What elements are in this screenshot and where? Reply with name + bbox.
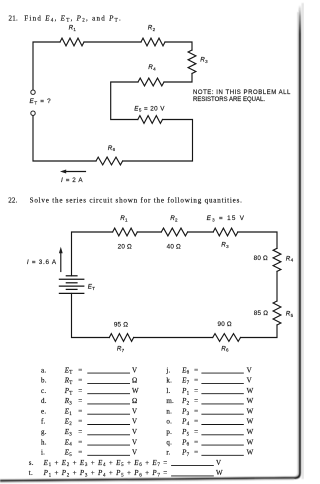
svg-text:=: =	[78, 438, 82, 446]
svg-text:E5: E5	[64, 449, 73, 458]
resistor R3	[188, 50, 196, 74]
svg-text:Find E4, ET, P2, and PT.: Find E4, ET, P2, and PT.	[24, 14, 121, 23]
svg-text:d.: d.	[41, 397, 47, 405]
svg-text:W: W	[247, 428, 254, 436]
wire: R7 to bottom-left corner up to battery	[72, 294, 110, 338]
svg-text:E4: E4	[64, 438, 73, 447]
svg-text:W: W	[132, 387, 139, 395]
svg-text:P4: P4	[181, 418, 190, 427]
svg-text:W: W	[247, 438, 254, 446]
svg-text:s.: s.	[29, 459, 34, 467]
resistor R1	[60, 38, 84, 46]
svg-text:=: =	[78, 366, 82, 374]
svg-text:R3: R3	[64, 397, 73, 406]
resistor R4	[273, 248, 281, 271]
wire: R6 to R7	[134, 337, 213, 339]
svg-text:E1: E1	[64, 407, 73, 416]
wire: R5 to bottom-right corner to R6	[241, 325, 278, 338]
svg-text:85 Ω: 85 Ω	[254, 310, 268, 317]
svg-text:q.: q.	[166, 438, 172, 446]
svg-text:40 Ω: 40 Ω	[167, 244, 181, 251]
resistor R2	[161, 228, 187, 236]
svg-text:80 Ω: 80 Ω	[254, 255, 268, 262]
svg-text:I = 2 A: I = 2 A	[61, 177, 83, 184]
svg-text:PT: PT	[64, 387, 73, 396]
svg-text:R2: R2	[148, 25, 156, 32]
svg-text:R2: R2	[170, 215, 178, 222]
svg-text:RT: RT	[64, 377, 73, 386]
svg-text:R6: R6	[221, 345, 229, 352]
svg-text:=: =	[194, 418, 198, 426]
svg-text:l.: l.	[166, 387, 170, 395]
svg-text:R7: R7	[117, 345, 125, 352]
svg-text:W: W	[247, 407, 254, 415]
svg-text:E3: E3	[64, 428, 73, 437]
svg-text:W: W	[247, 418, 254, 426]
svg-text:=: =	[194, 449, 198, 457]
svg-text:n.: n.	[166, 407, 172, 415]
terminal node (upper)	[31, 90, 35, 94]
wire: R4 to R5	[276, 271, 278, 301]
svg-text:E7: E7	[181, 377, 190, 386]
svg-text:R5: R5	[286, 311, 294, 318]
svg-text:V: V	[247, 377, 252, 385]
svg-text:R1: R1	[120, 215, 128, 222]
svg-text:b.: b.	[41, 377, 47, 385]
resistor R1	[113, 228, 138, 236]
wire: R4 left corner down to R5 row	[111, 82, 138, 120]
wire: R3 to top-right corner down to R4	[238, 232, 277, 248]
svg-text:W: W	[216, 469, 223, 477]
svg-text:P1: P1	[181, 387, 190, 396]
svg-text:g.: g.	[41, 428, 47, 436]
svg-text:E3 = 15 V: E3 = 15 V	[207, 215, 245, 222]
resistor R2	[141, 38, 165, 46]
svg-text:E5 = 20 V: E5 = 20 V	[134, 105, 165, 112]
svg-text:=: =	[194, 438, 198, 446]
battery ET	[59, 276, 85, 294]
svg-text:P7: P7	[181, 449, 190, 458]
svg-text:E6: E6	[181, 366, 190, 375]
wire: R1 to R2	[84, 41, 141, 43]
svg-text:P1 + P2 + P3 + P4 + P5 + P6 +: P1 + P2 + P3 + P4 + P5 + P6 + P7 =	[43, 469, 168, 478]
svg-text:m.: m.	[166, 397, 174, 405]
svg-text:I = 3.6 A: I = 3.6 A	[27, 259, 57, 266]
svg-text:W: W	[247, 397, 254, 405]
svg-text:=: =	[78, 387, 82, 395]
svg-text:ET = ?: ET = ?	[30, 98, 52, 105]
svg-text:=: =	[194, 397, 198, 405]
resistor R4	[138, 78, 164, 86]
wire: R6 to lower terminal	[33, 115, 96, 161]
svg-text:f.: f.	[41, 418, 46, 426]
svg-text:t.: t.	[29, 469, 33, 477]
svg-text:95 Ω: 95 Ω	[114, 321, 128, 328]
svg-text:=: =	[78, 407, 82, 415]
svg-text:c.: c.	[41, 387, 46, 395]
svg-text:=: =	[78, 449, 82, 457]
svg-text:V: V	[132, 438, 137, 446]
svg-text:h.: h.	[41, 438, 47, 446]
svg-text:i.: i.	[41, 449, 45, 457]
svg-text:P2: P2	[181, 397, 190, 406]
wire: R2 to R3	[188, 231, 214, 233]
svg-text:P5: P5	[181, 428, 190, 437]
svg-text:j.: j.	[165, 366, 170, 374]
svg-text:=: =	[194, 377, 198, 385]
svg-text:W: W	[247, 387, 254, 395]
svg-text:a.: a.	[41, 366, 46, 374]
svg-text:V: V	[216, 459, 221, 467]
svg-text:=: =	[78, 418, 82, 426]
current arrow I (pointing up)	[60, 253, 62, 272]
svg-text:Solve the series circuit shown: Solve the series circuit shown for the f…	[30, 197, 243, 205]
svg-text:=: =	[194, 428, 198, 436]
wire: R2 to top-right corner down to R3	[165, 42, 192, 50]
svg-text:V: V	[132, 366, 137, 374]
current arrow I (pointing left)	[65, 171, 86, 173]
wire: R3 bottom to R4	[164, 74, 192, 83]
svg-text:=: =	[78, 428, 82, 436]
svg-text:Ω: Ω	[132, 377, 137, 385]
svg-text:=: =	[194, 366, 198, 374]
svg-text:R3: R3	[221, 242, 229, 249]
svg-text:21.: 21.	[9, 14, 18, 22]
svg-text:p.: p.	[166, 428, 172, 436]
wire: top-left corner to R1	[72, 232, 113, 276]
resistor R5	[273, 301, 281, 325]
svg-text:R4: R4	[148, 64, 156, 71]
resistor R6	[213, 334, 241, 342]
svg-text:ET: ET	[88, 283, 95, 290]
svg-text:E1 + E2 + E3 + E4 + E5 + E6 +: E1 + E2 + E3 + E4 + E5 + E6 + E7 =	[43, 459, 168, 468]
svg-text:k.: k.	[166, 377, 172, 385]
svg-text:V: V	[132, 428, 137, 436]
terminal node (lower)	[31, 111, 35, 115]
svg-text:NOTE: IN THIS PROBLEM ALL: NOTE: IN THIS PROBLEM ALL	[193, 90, 291, 96]
resistor R3	[213, 228, 238, 236]
svg-text:W: W	[247, 449, 254, 457]
resistor R6	[96, 157, 123, 165]
wire: R1 to R2	[137, 231, 161, 233]
svg-text:V: V	[132, 449, 137, 457]
svg-text:22.: 22.	[8, 197, 17, 205]
svg-text:Ω: Ω	[132, 397, 137, 405]
svg-text:e.: e.	[41, 407, 46, 415]
svg-text:E2: E2	[64, 418, 73, 427]
svg-text:P6: P6	[181, 438, 190, 447]
svg-text:V: V	[132, 407, 137, 415]
svg-text:V: V	[247, 366, 252, 374]
svg-text:R3: R3	[200, 56, 208, 63]
resistor R7	[109, 334, 133, 342]
resistor R5 (E5)	[138, 116, 163, 124]
svg-text:20 Ω: 20 Ω	[118, 244, 132, 251]
svg-text:ET: ET	[64, 366, 73, 375]
wire: left terminal up to top rail and across to R1	[33, 42, 60, 90]
svg-text:V: V	[132, 418, 137, 426]
svg-text:90 Ω: 90 Ω	[218, 321, 232, 328]
svg-text:R4: R4	[286, 255, 294, 262]
svg-text:=: =	[194, 407, 198, 415]
svg-text:R6: R6	[108, 145, 116, 152]
svg-text:RESISTORS ARE EQUAL.: RESISTORS ARE EQUAL.	[193, 97, 265, 103]
svg-text:=: =	[78, 377, 82, 385]
svg-text:r.: r.	[166, 449, 170, 457]
svg-text:R1: R1	[69, 25, 77, 32]
svg-text:P3: P3	[181, 407, 190, 416]
svg-text:=: =	[78, 397, 82, 405]
wire: R5 to right corner down to R6 row	[123, 120, 193, 162]
svg-text:o.: o.	[166, 418, 172, 426]
svg-text:=: =	[194, 387, 198, 395]
